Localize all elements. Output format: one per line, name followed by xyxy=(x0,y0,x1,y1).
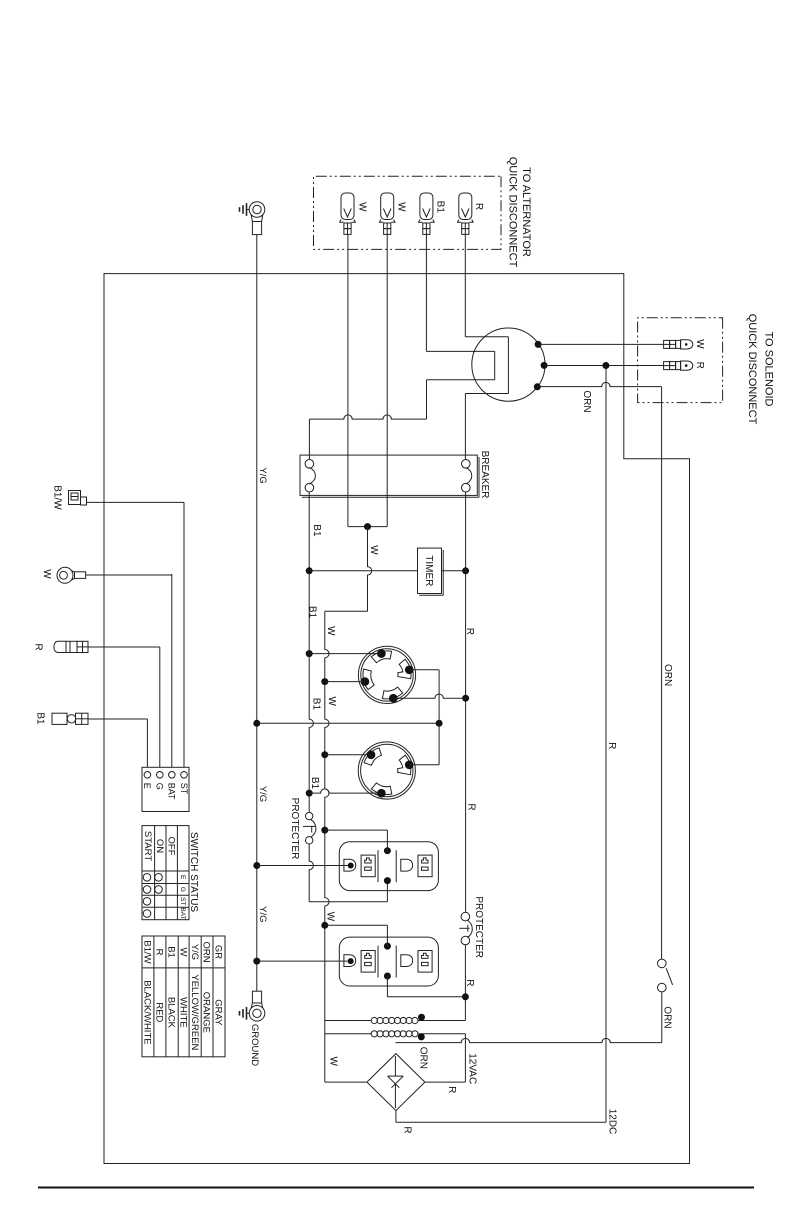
ring terminal GROUND (frame ground lug) xyxy=(252,991,261,1003)
wire G to receptacle 2 xyxy=(409,764,439,766)
svg-text:W: W xyxy=(177,948,188,957)
svg-text:BREAKER: BREAKER xyxy=(479,451,490,499)
switch contact lower xyxy=(658,983,667,992)
duplex 2 ground pin (dot) xyxy=(348,958,354,964)
svg-text:GRAY: GRAY xyxy=(213,999,224,1026)
svg-text:R: R xyxy=(473,203,484,210)
coil 1 right lead xyxy=(418,1020,466,1022)
duplex receptacle 2 xyxy=(339,937,438,986)
svg-text:B1: B1 xyxy=(435,201,446,214)
switch terminal G xyxy=(157,772,164,779)
svg-text:R: R xyxy=(464,979,475,986)
junction dot W receptacle 2 xyxy=(321,751,328,758)
wire Y/G from ground lug into panel xyxy=(256,235,258,992)
duplex 1 ground pin (dot) xyxy=(348,863,354,869)
svg-text:R: R xyxy=(606,742,617,749)
svg-text:B1: B1 xyxy=(311,524,322,537)
junction dot R duplex 2 branch xyxy=(462,993,469,1000)
svg-text:W: W xyxy=(694,339,705,349)
dash-dot box TO ALTERNATOR QUICK DISCONNECT xyxy=(314,176,502,249)
wire B1 from breaker down to protecter (hops ground-bus) xyxy=(309,492,313,812)
terminal W (solenoid quick disconnect) xyxy=(664,340,670,348)
svg-text:Y/G: Y/G xyxy=(257,786,268,802)
coil 1 terminal dot xyxy=(418,1014,425,1021)
duplex 2 W pin (dot) xyxy=(384,943,391,950)
svg-text:12VAC: 12VAC xyxy=(466,1053,477,1084)
svg-text:G: G xyxy=(179,887,186,892)
wire ORN down right side to switch xyxy=(661,387,663,960)
svg-text:W: W xyxy=(356,202,367,212)
svg-text:B1: B1 xyxy=(34,712,45,725)
protecter 2 thermal tee xyxy=(459,927,469,929)
connector R (bullet terminal) xyxy=(54,641,66,652)
svg-text:B1: B1 xyxy=(166,946,177,958)
svg-text:TIMER: TIMER xyxy=(423,555,434,586)
wire protecter 1 to duplex 1 (hops ground wire) xyxy=(309,844,313,902)
wire W from join to corner xyxy=(368,527,372,612)
svg-text:B1: B1 xyxy=(306,606,317,619)
svg-text:12DC: 12DC xyxy=(606,1109,617,1135)
wire B1 from connector down to engine xyxy=(425,234,427,351)
receptacle 1 pin R (dot) xyxy=(389,694,398,703)
wire W into duplex 2 xyxy=(325,924,388,926)
wire B1 from engine down xyxy=(426,380,428,419)
switch terminal ST xyxy=(181,772,188,779)
bridge diode xyxy=(394,1056,396,1076)
svg-text:R: R xyxy=(694,362,705,369)
wire ORN from switch to rectifier (hops R and 12DC) xyxy=(661,992,663,1043)
svg-text:W: W xyxy=(396,202,407,212)
wire W to receptacle 2 xyxy=(325,754,371,756)
page footer rule xyxy=(38,1187,754,1189)
wire ground bus to twist-lock grounds xyxy=(257,722,439,724)
switch terminal BAT xyxy=(169,772,176,779)
ring terminal (engine ground lug) xyxy=(249,202,265,218)
junction dot W join xyxy=(364,523,371,530)
svg-text:QUICK DISCONNECT: QUICK DISCONNECT xyxy=(746,314,758,425)
wire W1 from connector through breaker box xyxy=(347,234,349,526)
wire B1 loop through engine (bottom) xyxy=(427,379,495,381)
engine-alternator circle xyxy=(472,328,545,401)
ground symbol (engine ground) xyxy=(247,209,250,211)
svg-text:E: E xyxy=(142,783,152,789)
wire B1 to receptacle 2 (hops W run) xyxy=(309,789,381,793)
junction dot B1 protecter top xyxy=(306,790,313,797)
wire R loop through engine (right) xyxy=(507,337,509,394)
connector W2 (alternator quick disconnect) xyxy=(381,193,394,220)
svg-text:E: E xyxy=(179,875,186,880)
junction dot W receptacle 1 xyxy=(321,678,328,685)
switch terminal E xyxy=(144,772,151,779)
connector B1 (alternator quick disconnect) xyxy=(420,193,433,220)
svg-text:R: R xyxy=(32,643,43,650)
connector W (ring terminal) xyxy=(57,567,73,583)
svg-text:W: W xyxy=(328,1056,339,1066)
junction dot Y/G to duplex 2 ground xyxy=(253,958,260,965)
svg-text:Y/G: Y/G xyxy=(189,944,200,960)
wire B1 across to breaker (hops W1 W2) xyxy=(309,415,426,419)
timer box xyxy=(418,548,442,593)
junction dot Y/G to receptacle grounds xyxy=(253,720,260,727)
svg-text:GROUND: GROUND xyxy=(249,1024,260,1066)
rectifier bridge diamond xyxy=(367,1054,425,1111)
protecter 1 thermal tee xyxy=(303,825,315,827)
wire B1/W to switch ST xyxy=(87,501,185,503)
svg-text:BLACK: BLACK xyxy=(166,997,177,1029)
wire B1 to switch E xyxy=(88,718,147,720)
svg-text:GR: GR xyxy=(213,945,224,959)
svg-text:R: R xyxy=(446,1086,457,1093)
protecter 2 contact lower xyxy=(461,936,470,945)
svg-text:W: W xyxy=(41,569,52,579)
wire protecter link bottom xyxy=(309,901,387,903)
twist-lock receptacle 2 (120V) xyxy=(358,742,415,799)
node stator tap ORN (dot on circle) xyxy=(534,383,541,390)
breaker box xyxy=(300,455,477,495)
wire W into duplex 1 xyxy=(325,829,388,831)
svg-text:RED: RED xyxy=(153,1002,164,1022)
breaker pole B1 (circles and arc) xyxy=(305,460,314,469)
wire bridge bottom 12DC out xyxy=(395,1111,397,1123)
wire ORN bottom run to bridge (hops 12VAC and 12DC wires) xyxy=(395,1038,661,1042)
svg-text:R: R xyxy=(153,949,164,956)
wire B1 down to breaker pole xyxy=(308,419,310,460)
svg-text:B1/W: B1/W xyxy=(142,940,153,963)
wire colour legend grid xyxy=(142,936,225,1057)
charge coil 1 (winding) xyxy=(371,1017,377,1023)
charge coil 2 (winding) xyxy=(371,1031,377,1037)
breaker pole R (circles and arc) xyxy=(461,460,470,469)
svg-text:B1: B1 xyxy=(309,777,320,790)
wire R down to breaker pole xyxy=(464,394,466,460)
wire W2 from connector through breaker box xyxy=(386,234,388,526)
protecter 1 contact upper xyxy=(306,812,313,819)
switch contact upper xyxy=(658,959,667,968)
protecter 1 arc xyxy=(311,819,316,837)
svg-text:R: R xyxy=(465,803,476,810)
receptacle 1 pin B1 (dot) xyxy=(377,649,386,658)
receptacle 2 pin W (dot) xyxy=(367,751,376,760)
junction dot B1 receptacle 1 xyxy=(306,650,313,657)
protecter 2 arc xyxy=(467,920,472,938)
svg-text:TO SOLENOID: TO SOLENOID xyxy=(762,332,774,407)
svg-text:B1/W: B1/W xyxy=(51,485,62,510)
wire protecter link up to duplex 1 xyxy=(386,881,388,902)
wire R protecter 2 to coil xyxy=(464,945,466,1021)
wire breaker-B1 to timer to R xyxy=(309,570,417,572)
svg-text:ORN: ORN xyxy=(661,1006,672,1028)
svg-text:W: W xyxy=(326,696,337,706)
svg-text:SWITCH STATUS: SWITCH STATUS xyxy=(188,832,199,913)
svg-text:YELLOW/GREEN: YELLOW/GREEN xyxy=(189,974,200,1050)
wire R engine to solenoid xyxy=(544,365,664,367)
wire duplex 2 to R junction xyxy=(386,976,388,997)
receptacle 2 pin G (dot) xyxy=(405,761,414,770)
coil 1 left lead xyxy=(325,1020,372,1022)
dash-dot box TO SOLENOID QUICK DISCONNECT xyxy=(638,318,723,403)
receptacle 1 pin W (dot) xyxy=(361,677,370,686)
duplex 2 hot pin (dot) xyxy=(384,973,391,980)
svg-text:B1: B1 xyxy=(310,698,321,711)
wire 12DC from solenoid junction down (R) xyxy=(605,366,607,1123)
coil 2 right lead xyxy=(418,1033,466,1035)
switch blade xyxy=(666,968,672,985)
twist-lock receptacle 1 (240V) xyxy=(358,646,415,703)
junction dot R / 12DC branch xyxy=(602,362,609,369)
protecter 2 contact upper xyxy=(461,912,470,921)
terminal R (solenoid quick disconnect) xyxy=(664,362,670,370)
svg-text:OFF: OFF xyxy=(165,837,176,856)
svg-text:TO ALTERNATOR: TO ALTERNATOR xyxy=(520,167,532,257)
wire W main run (hops B1 and crossing wires) xyxy=(325,611,329,1082)
svg-text:ORANGE: ORANGE xyxy=(201,992,212,1033)
duplex 1 W pin (dot) xyxy=(384,847,391,854)
connector R (alternator quick disconnect) xyxy=(459,193,472,220)
wire B1 loop through engine (top) xyxy=(426,350,494,352)
wire W corner to main W run xyxy=(325,610,368,612)
svg-text:ON: ON xyxy=(154,839,165,853)
svg-text:ORN: ORN xyxy=(662,664,673,686)
wire W to switch BAT xyxy=(86,574,172,576)
coil 2 terminal dot xyxy=(418,1033,425,1040)
svg-text:R: R xyxy=(464,628,475,635)
svg-text:W: W xyxy=(368,545,379,555)
wire ground link between twist-lock receptacles xyxy=(438,670,440,765)
wire R from connector down to engine xyxy=(464,234,466,336)
svg-text:ORN: ORN xyxy=(581,390,592,412)
switch status table grid xyxy=(142,826,189,920)
receptacle 2 pin B1 (dot) xyxy=(377,789,386,798)
wire R loop through engine (top) xyxy=(465,336,508,338)
junction dot R receptacle 1 xyxy=(462,695,469,702)
wire joining W1 and W2 xyxy=(348,526,387,528)
junction dot Y/G to duplex 1 ground xyxy=(253,862,260,869)
ground symbol (frame ground) xyxy=(247,1012,250,1014)
svg-text:ST: ST xyxy=(179,783,189,795)
wire ground to duplex 1 xyxy=(257,865,348,867)
junction dot twist-lock ground link xyxy=(436,720,443,727)
junction dot timer R side xyxy=(462,567,469,574)
coil 2 left lead xyxy=(325,1033,372,1035)
wire W engine to solenoid xyxy=(538,343,664,345)
wire bridge right to 12VAC xyxy=(425,1081,466,1083)
svg-text:PROTECTER: PROTECTER xyxy=(473,896,484,958)
svg-text:PROTECTER: PROTECTER xyxy=(289,798,300,860)
wire W to bridge left corner xyxy=(325,1081,367,1083)
svg-text:Y/G: Y/G xyxy=(257,906,268,922)
svg-text:Y/G: Y/G xyxy=(257,467,268,483)
receptacle 1 pin G (dot) xyxy=(405,666,414,675)
node stator tap W (dot on circle) xyxy=(535,341,542,348)
connector B1 (spade terminal) xyxy=(52,713,67,724)
wire W to receptacle 1 xyxy=(325,681,365,683)
connector W1 (alternator quick disconnect) xyxy=(341,193,354,220)
svg-text:START: START xyxy=(142,831,153,861)
protecter 1 contact lower xyxy=(306,837,313,844)
svg-text:WHITE: WHITE xyxy=(177,997,188,1028)
duplex receptacle 1 (GFCI pair) xyxy=(339,842,438,891)
ignition switch box xyxy=(142,767,189,811)
wire R loop through engine (bottom) xyxy=(465,393,508,395)
svg-text:ORN: ORN xyxy=(201,941,212,962)
wire R from breaker down to protecter 2 xyxy=(465,492,467,912)
wire B1 loop through engine (right) xyxy=(494,351,496,379)
svg-text:R: R xyxy=(402,1126,413,1133)
svg-text:BLACK/WHITE: BLACK/WHITE xyxy=(142,980,153,1044)
svg-text:QUICK DISCONNECT: QUICK DISCONNECT xyxy=(507,157,519,268)
junction dot W duplex 2 xyxy=(321,922,328,929)
svg-text:BAT: BAT xyxy=(167,783,177,800)
node stator tap R (dot on circle) xyxy=(541,362,548,369)
svg-text:W: W xyxy=(325,912,336,922)
svg-text:ST: ST xyxy=(179,897,186,905)
svg-text:G: G xyxy=(155,783,165,790)
wire ORN from engine (hops 12DC wire) xyxy=(537,382,661,386)
wire R to receptacle 1 (hops ground link) xyxy=(393,694,465,698)
svg-text:BAT: BAT xyxy=(179,907,186,919)
wire B1 to receptacle 1 xyxy=(309,653,381,655)
wire G to receptacle 1 xyxy=(409,669,439,671)
switch status indicator circles xyxy=(155,874,163,882)
connector B1/W (tab terminal) xyxy=(69,491,81,505)
wire 12VAC right side xyxy=(464,1034,466,1082)
junction dot W duplex 1 xyxy=(321,827,328,834)
wire frame boundary of generator panel xyxy=(104,274,690,1164)
svg-text:W: W xyxy=(325,626,336,636)
svg-text:ORN: ORN xyxy=(418,1047,429,1069)
wire R to switch G xyxy=(88,646,160,648)
wire ground to duplex 2 xyxy=(257,960,348,962)
duplex 1 hot pin (dot) xyxy=(384,877,391,884)
junction dot B1 timer xyxy=(306,567,313,574)
